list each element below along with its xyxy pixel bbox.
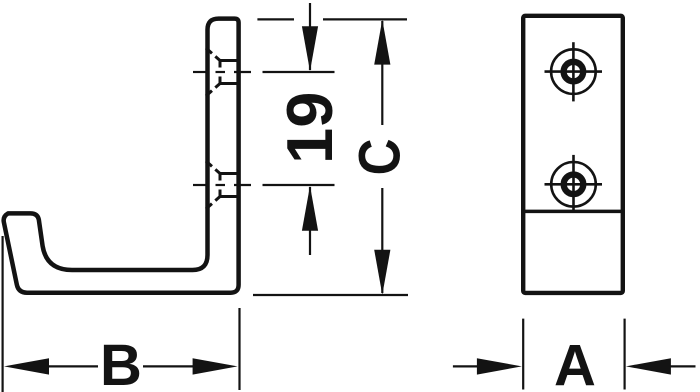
svg-text:C: C: [348, 139, 413, 176]
svg-text:A: A: [554, 334, 596, 392]
svg-text:B: B: [100, 333, 142, 392]
svg-text:19: 19: [273, 92, 346, 164]
